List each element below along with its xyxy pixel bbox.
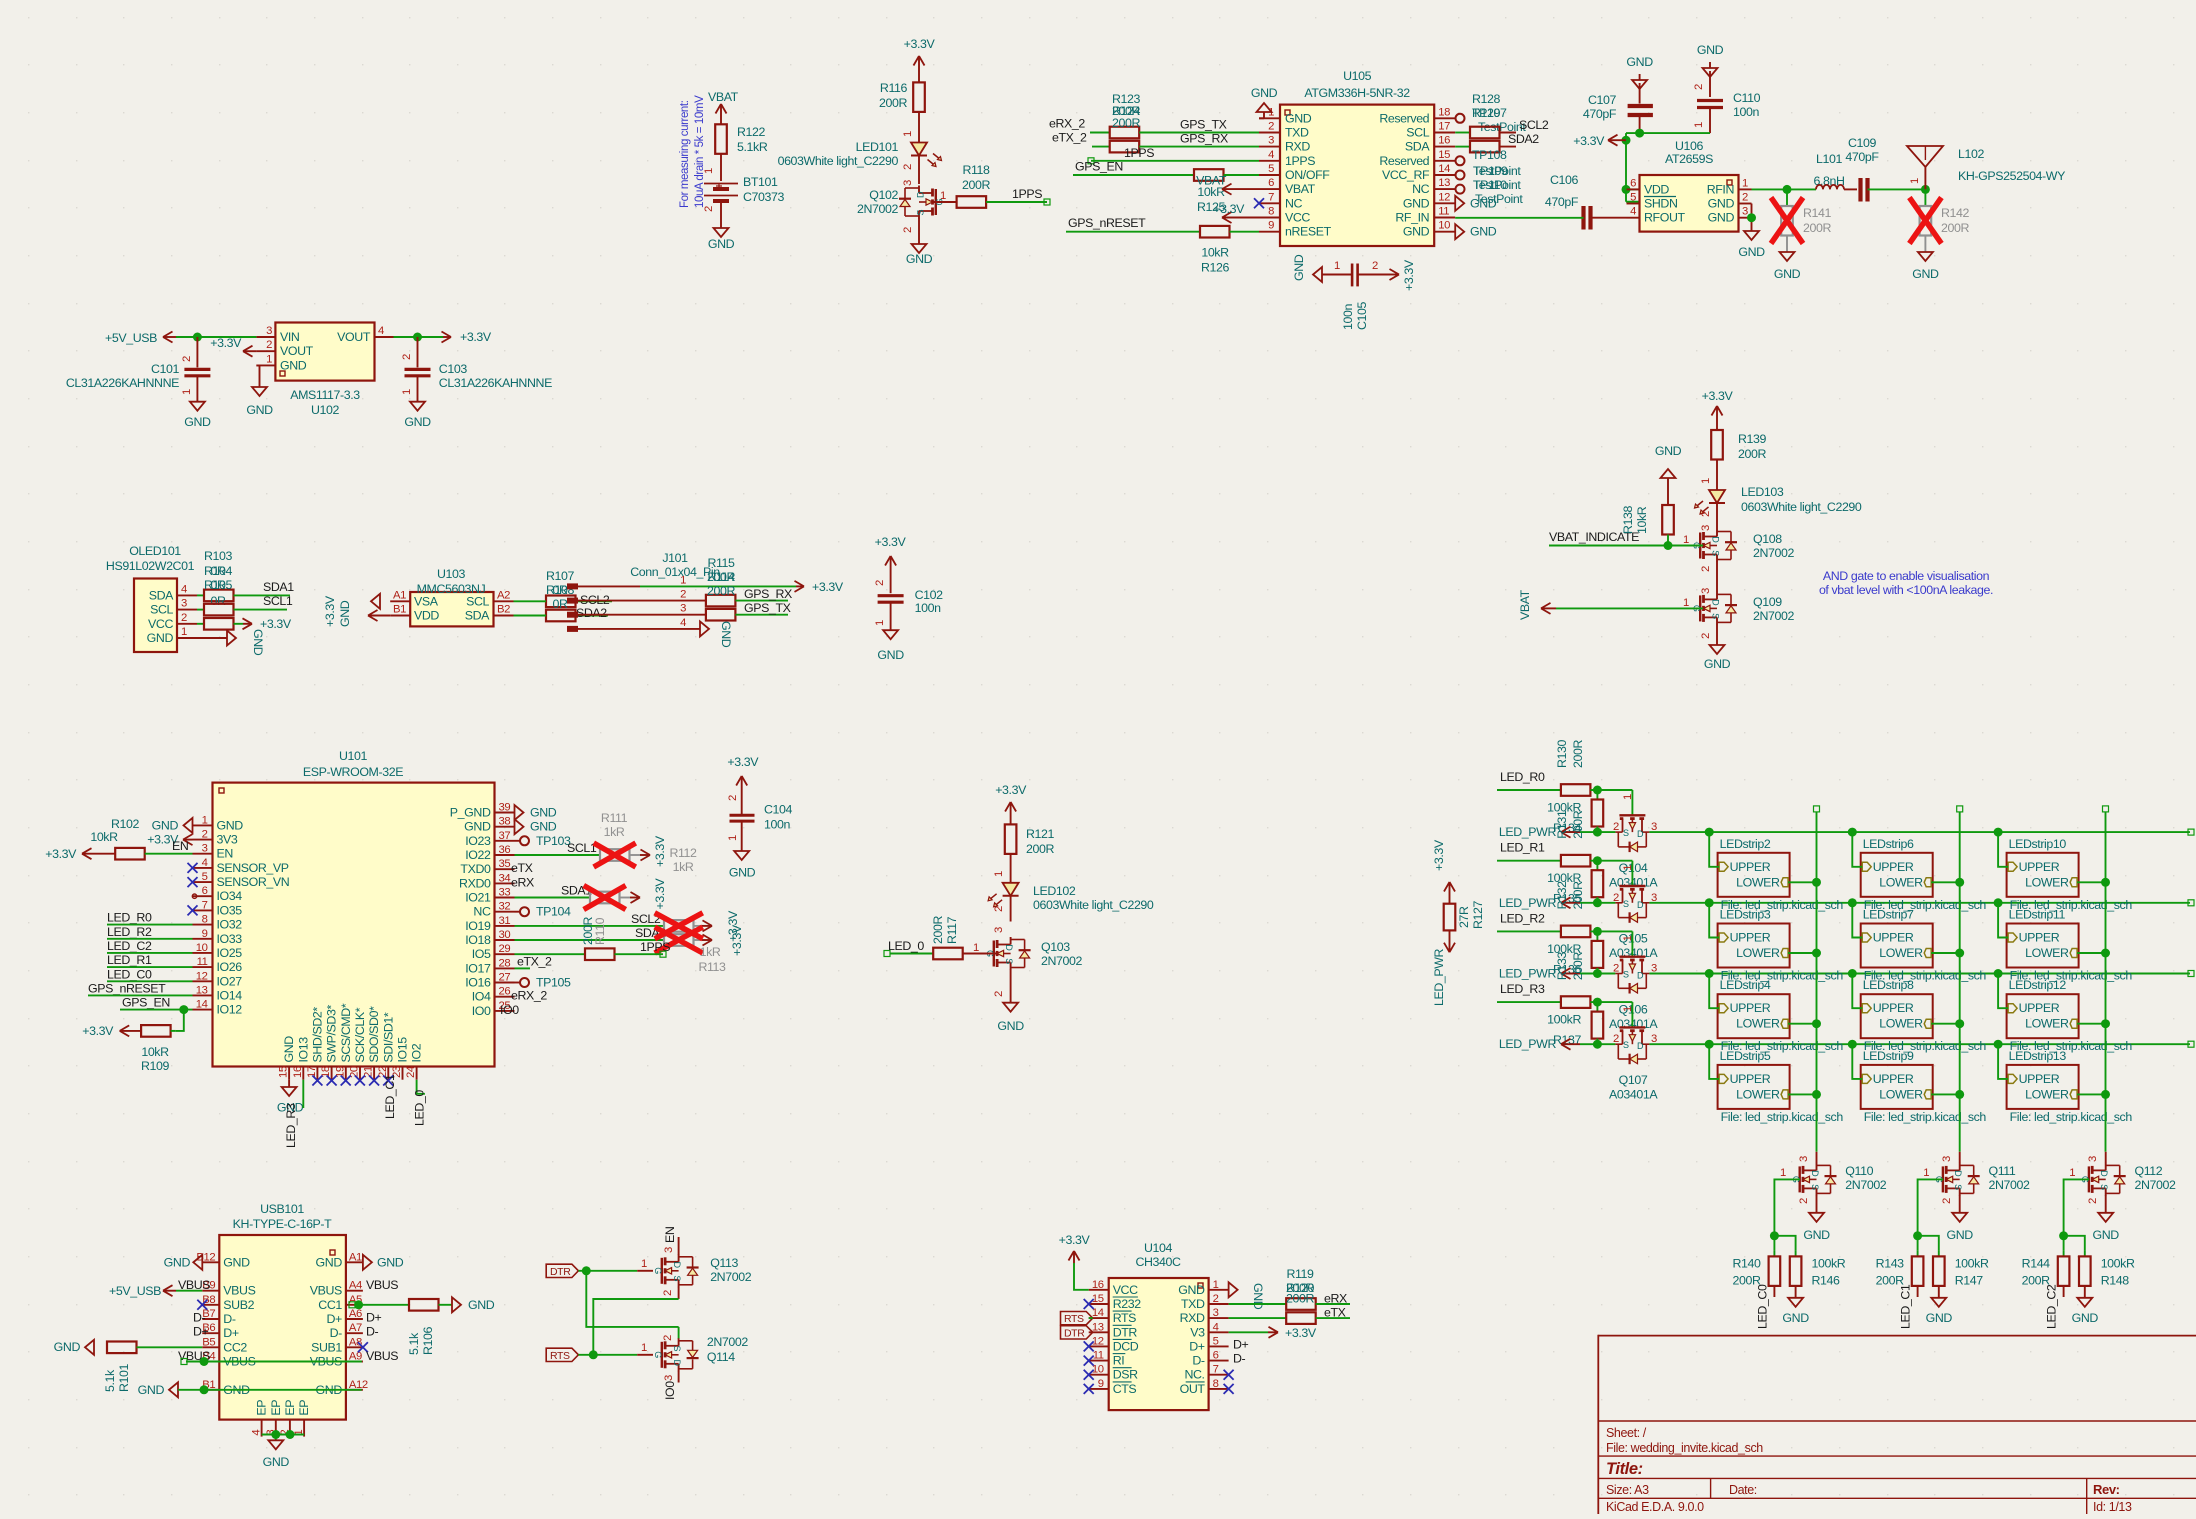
svg-text:CTS: CTS	[1113, 1382, 1137, 1396]
svg-text:Date:: Date:	[1729, 1483, 1757, 1497]
ground U106 pins 2-3	[1738, 204, 1765, 260]
wire LOWER LEDstrip7	[1931, 949, 1964, 958]
svg-text:TP105: TP105	[536, 976, 571, 990]
no-connect ESP pin21	[369, 1076, 379, 1086]
svg-text:100n: 100n	[1341, 304, 1355, 330]
net GPS_EN	[120, 996, 193, 1015]
svg-text:470pF: 470pF	[1545, 195, 1579, 209]
svg-text:GND: GND	[263, 1455, 290, 1469]
svg-text:LOWER: LOWER	[2025, 946, 2069, 960]
svg-text:GND: GND	[997, 1019, 1024, 1033]
svg-text:0R: 0R	[210, 578, 225, 592]
svg-text:Q111: Q111	[1989, 1164, 2016, 1178]
svg-text:0R: 0R	[210, 594, 225, 608]
svg-text:GND: GND	[1403, 196, 1430, 210]
svg-text:15: 15	[278, 1066, 290, 1078]
resistor R116	[879, 81, 925, 112]
svg-text:11: 11	[1093, 1350, 1104, 1362]
svg-text:+5V_USB: +5V_USB	[109, 1284, 161, 1298]
svg-text:13: 13	[196, 984, 208, 996]
svg-text:GND: GND	[251, 629, 265, 656]
svg-text:IO15: IO15	[396, 1037, 410, 1063]
wire UPPER LEDstrip5	[1709, 1044, 1719, 1079]
resistor R144	[2022, 1251, 2070, 1297]
svg-text:A1: A1	[393, 589, 406, 601]
svg-text:S: S	[672, 1276, 682, 1282]
svg-text:C109: C109	[1848, 136, 1877, 150]
svg-text:13: 13	[1092, 1321, 1104, 1333]
svg-text:200R: 200R	[962, 178, 990, 192]
resistor R141 (DNP)	[1771, 189, 1832, 252]
svg-text:S: S	[1623, 1040, 1629, 1050]
svg-text:D-: D-	[1233, 1352, 1246, 1366]
svg-text:LEDstrip9: LEDstrip9	[1863, 1049, 1914, 1063]
svg-text:R126: R126	[1201, 261, 1230, 275]
wire LOWER LEDstrip12	[2077, 1019, 2110, 1028]
svg-text:GND: GND	[1947, 1228, 1974, 1242]
ground at B1	[138, 1382, 362, 1397]
svg-text:SHD/SD2*: SHD/SD2*	[310, 1007, 324, 1063]
resistor R138	[1621, 505, 1674, 546]
svg-text:D: D	[1711, 536, 1721, 543]
wire Q111 source to GND	[1941, 1195, 1960, 1212]
svg-text:LEDstrip13: LEDstrip13	[2009, 1049, 2067, 1063]
svg-text:NC: NC	[1285, 196, 1303, 210]
wire Q112 gate	[2059, 1179, 2089, 1250]
svg-text:Q109: Q109	[1753, 595, 1782, 609]
svg-text:3V3: 3V3	[217, 833, 238, 847]
inductor L101	[1813, 152, 1844, 189]
svg-text:+3.3V: +3.3V	[653, 835, 667, 867]
svg-text:6: 6	[202, 885, 208, 897]
svg-text:27: 27	[499, 972, 511, 984]
svg-text:LOWER: LOWER	[1879, 1087, 1923, 1101]
net EN at Q113 drain	[663, 1227, 679, 1255]
ground above R138	[1655, 444, 1682, 505]
resistor R119 on TXD	[1229, 1267, 1350, 1310]
svg-text:D+: D+	[1189, 1339, 1205, 1353]
svg-text:+5V_USB: +5V_USB	[105, 331, 157, 345]
transistor Q108	[1683, 529, 1795, 562]
svg-text:Id: 1/13: Id: 1/13	[2093, 1500, 2132, 1514]
svg-text:1: 1	[973, 942, 979, 954]
svg-text:4: 4	[251, 1430, 263, 1436]
power +3.3V at R109	[82, 1024, 141, 1038]
svg-text:D: D	[1953, 1170, 1963, 1177]
U101 pins	[193, 802, 515, 1080]
svg-text:2N7002: 2N7002	[1753, 546, 1795, 560]
wire Q103 source to GND	[993, 970, 1011, 1003]
svg-text:2: 2	[1372, 260, 1378, 272]
transistor Q104 A03401A	[1609, 815, 1658, 889]
power +3.3V above R139	[1702, 389, 1734, 430]
svg-text:UPPER: UPPER	[1873, 860, 1914, 874]
svg-text:D+: D+	[193, 1325, 209, 1339]
svg-text:1: 1	[1622, 1006, 1634, 1012]
svg-text:U101: U101	[339, 749, 368, 763]
J101 pins	[567, 574, 686, 632]
svg-text:RTS: RTS	[550, 1350, 570, 1362]
wire LED_PWR row 2	[1580, 973, 1615, 975]
magnetometer U103 MMC5603NJ	[410, 567, 493, 626]
svg-text:D: D	[672, 1262, 682, 1269]
svg-text:UPPER: UPPER	[2019, 1072, 2060, 1086]
ground at U105 pin10	[1455, 224, 1497, 239]
svg-text:1: 1	[1622, 794, 1634, 800]
ground under Q112	[2093, 1213, 2120, 1242]
wire R121 to LED102	[993, 854, 1011, 883]
svg-text:GPS_EN: GPS_EN	[122, 996, 170, 1010]
svg-text:R232: R232	[1113, 1297, 1142, 1311]
transistor Q107 A03401A	[1609, 1027, 1658, 1101]
svg-text:R127: R127	[1471, 900, 1485, 929]
capacitor C107	[1583, 93, 1653, 133]
ground at ESP pin15	[277, 1080, 304, 1115]
svg-text:R109: R109	[141, 1059, 170, 1073]
resistor R131	[1555, 810, 1590, 866]
svg-text:12: 12	[1092, 1335, 1104, 1347]
svg-text:1: 1	[1622, 935, 1634, 941]
svg-text:13: 13	[1438, 177, 1450, 189]
svg-text:File: wedding_invite.kicad_sch: File: wedding_invite.kicad_sch	[1606, 1441, 1763, 1455]
wire UPPER LEDstrip8	[1852, 974, 1862, 1009]
svg-text:GND: GND	[906, 252, 933, 266]
svg-text:0603White light_C2290: 0603White light_C2290	[778, 154, 899, 168]
svg-text:Reserved: Reserved	[1379, 154, 1429, 168]
wire VOUT to +3.3V	[394, 333, 444, 342]
svg-text:C102: C102	[915, 588, 944, 602]
resistor R142 (DNP)	[1909, 189, 1969, 252]
net LED_R3 at pin16	[284, 1080, 303, 1148]
svg-text:CC2: CC2	[223, 1340, 247, 1354]
svg-text:1: 1	[641, 1258, 647, 1270]
svg-text:LOWER: LOWER	[1879, 946, 1923, 960]
resistor R124 on eTX_2	[1052, 131, 1259, 153]
power +3.3V above R127	[1432, 839, 1455, 904]
svg-text:IO5: IO5	[472, 947, 491, 961]
svg-text:U106: U106	[1675, 139, 1704, 153]
resistor R121	[1005, 824, 1055, 856]
svg-text:2: 2	[902, 164, 914, 170]
svg-text:32: 32	[499, 901, 511, 913]
svg-text:LEDstrip4: LEDstrip4	[1720, 978, 1771, 992]
svg-text:VCC: VCC	[148, 617, 173, 631]
no-connect U104 pins	[1084, 1299, 1094, 1394]
hierarchical label RTS at U104	[1061, 1312, 1093, 1326]
svg-text:ATGM336H-5NR-32: ATGM336H-5NR-32	[1304, 86, 1410, 100]
wire J101 pin1 to +3.3V	[640, 580, 844, 594]
svg-text:100kR: 100kR	[1547, 1013, 1581, 1027]
wire LED_PWR row 3	[1580, 1043, 1615, 1045]
power LED_PWR row 3	[1499, 1037, 1580, 1051]
net LED_R0	[107, 911, 193, 925]
svg-text:GND: GND	[1251, 1283, 1265, 1310]
power +3.3V at VOUT pin2	[210, 336, 256, 357]
capacitor C105	[1292, 254, 1416, 330]
svg-text:GND: GND	[280, 358, 307, 372]
svg-text:EP: EP	[269, 1400, 283, 1416]
svg-text:GND: GND	[468, 1298, 495, 1312]
svg-text:2: 2	[1613, 821, 1619, 833]
note measuring current (blue)	[679, 95, 706, 208]
svg-text:2: 2	[662, 1335, 674, 1341]
svg-text:2: 2	[1742, 192, 1748, 204]
title block	[1598, 1335, 2196, 1514]
wire LOWER LEDstrip2	[1788, 878, 1821, 887]
resistor R122	[715, 124, 768, 154]
svg-text:IO2: IO2	[410, 1043, 424, 1062]
svg-text:HS91L02W2C01: HS91L02W2C01	[106, 559, 195, 573]
svg-text:+3.3V: +3.3V	[730, 924, 744, 956]
svg-text:LOWER: LOWER	[1736, 1087, 1780, 1101]
svg-text:LED_PWR: LED_PWR	[1499, 1037, 1557, 1051]
svg-text:A8: A8	[349, 1336, 362, 1348]
svg-text:S: S	[1623, 828, 1629, 838]
net LED_C1 at pin23	[383, 1074, 397, 1119]
svg-text:GND: GND	[1803, 1228, 1830, 1242]
svg-text:D-: D-	[330, 1326, 343, 1340]
svg-text:1: 1	[902, 131, 914, 137]
svg-text:SDA1: SDA1	[263, 580, 294, 594]
svg-text:OUT: OUT	[1180, 1382, 1206, 1396]
svg-text:GND: GND	[1708, 211, 1735, 225]
svg-text:2: 2	[1613, 892, 1619, 904]
svg-text:G: G	[653, 1351, 663, 1358]
wire EP pins	[262, 1430, 305, 1440]
svg-text:U103: U103	[437, 567, 466, 581]
svg-text:TXD: TXD	[1181, 1297, 1205, 1311]
svg-text:SCL: SCL	[1406, 126, 1429, 140]
svg-text:2: 2	[1798, 1198, 1810, 1204]
svg-text:R131: R131	[1555, 810, 1569, 839]
svg-text:SCL: SCL	[466, 594, 489, 608]
svg-text:VBAT: VBAT	[708, 90, 739, 104]
svg-text:C110: C110	[1733, 91, 1761, 105]
ground at U105 pin1	[1251, 86, 1278, 118]
resistor R137	[1547, 1002, 1603, 1049]
resistor R117	[931, 916, 997, 960]
wire LED_PWR row 0	[1580, 831, 1615, 833]
power +3.3V at R102	[45, 847, 115, 861]
svg-text:LOWER: LOWER	[2025, 875, 2069, 889]
svg-text:TP107: TP107	[1472, 106, 1507, 120]
svg-text:VCC: VCC	[1285, 211, 1310, 225]
svg-text:of vbat level with <100nA leak: of vbat level with <100nA leakage.	[1819, 583, 1993, 597]
svg-text:GND: GND	[1626, 55, 1653, 69]
sheet LEDstrip6	[1861, 837, 1987, 912]
power +3.3V at U103 VDD	[323, 595, 390, 627]
power +3.3V at ESP pin2	[147, 833, 192, 847]
svg-text:ON/OFF: ON/OFF	[1285, 168, 1330, 182]
svg-text:AMS1117-3.3: AMS1117-3.3	[290, 388, 360, 402]
svg-text:IO14: IO14	[217, 988, 243, 1002]
svg-text:R114: R114	[707, 570, 735, 584]
svg-text:1kR: 1kR	[604, 825, 625, 839]
wire cross-couple RTS to Q113 source	[593, 1287, 678, 1355]
svg-text:2: 2	[874, 580, 886, 586]
svg-text:16: 16	[292, 1066, 304, 1078]
ground under Q103	[997, 1003, 1024, 1033]
svg-text:USB101: USB101	[260, 1202, 304, 1216]
svg-text:R144: R144	[2022, 1257, 2051, 1271]
resistor R127	[1444, 900, 1485, 930]
svg-text:GPS_nRESET: GPS_nRESET	[1068, 216, 1146, 230]
resistor R147	[1933, 1251, 1989, 1298]
svg-text:UPPER: UPPER	[1873, 1001, 1914, 1015]
wire LOWER LEDstrip8	[1931, 1019, 1964, 1028]
resistor R140	[1732, 1251, 1780, 1297]
svg-text:LOWER: LOWER	[1879, 875, 1923, 889]
wire UPPER LEDstrip12	[1998, 974, 2008, 1009]
svg-text:5.1k: 5.1k	[103, 1369, 117, 1392]
resistor R114 on GPS_TX	[640, 601, 791, 621]
svg-text:1: 1	[266, 353, 272, 365]
svg-text:TestPoint: TestPoint	[1473, 164, 1521, 178]
hierarchical label RTS	[546, 1348, 578, 1362]
wire Q110 source to GND	[1798, 1195, 1817, 1212]
svg-text:KiCad E.D.A. 9.0.0: KiCad E.D.A. 9.0.0	[1606, 1500, 1704, 1514]
svg-text:+3.3V: +3.3V	[323, 595, 337, 627]
svg-text:C106: C106	[1550, 173, 1579, 187]
svg-text:S: S	[1711, 550, 1721, 556]
ground at R106	[452, 1297, 495, 1312]
svg-text:RF_IN: RF_IN	[1395, 211, 1429, 225]
wire gate node row 3	[1590, 998, 1634, 1028]
net GPS_nRESET	[88, 981, 193, 995]
svg-text:LOWER: LOWER	[1879, 1017, 1923, 1031]
LED LED102	[988, 883, 1154, 912]
no-connect ESP pin17	[312, 1076, 322, 1086]
svg-text:1: 1	[1683, 597, 1689, 609]
svg-text:GPS_EN: GPS_EN	[1075, 160, 1123, 174]
svg-text:IO0: IO0	[500, 1003, 519, 1017]
svg-text:LED_0: LED_0	[888, 939, 924, 953]
resistor R130	[1555, 739, 1590, 795]
svg-text:+3.3V: +3.3V	[1059, 1233, 1091, 1247]
capacitor C109	[1844, 136, 1930, 202]
svg-text:2N7002: 2N7002	[857, 202, 899, 216]
svg-text:D: D	[1004, 944, 1014, 951]
svg-text:S: S	[1810, 1184, 1820, 1190]
svg-text:2N7002: 2N7002	[1753, 609, 1795, 623]
svg-text:Q103: Q103	[1041, 940, 1070, 954]
svg-text:D+: D+	[366, 1311, 382, 1325]
svg-text:1: 1	[401, 389, 413, 395]
svg-text:1: 1	[1693, 122, 1705, 128]
svg-text:2: 2	[1700, 511, 1712, 517]
svg-text:LED_C2: LED_C2	[2045, 1284, 2059, 1329]
ground at B12	[164, 1255, 203, 1270]
svg-text:GND: GND	[147, 631, 174, 645]
svg-text:Sheet: /: Sheet: /	[1606, 1426, 1647, 1440]
svg-text:GND: GND	[338, 600, 352, 627]
svg-text:0603White light_C2290: 0603White light_C2290	[1741, 500, 1862, 514]
wire drain row 2	[1649, 969, 2194, 978]
svg-text:LEDstrip2: LEDstrip2	[1720, 837, 1771, 851]
svg-text:17: 17	[1438, 121, 1450, 133]
svg-text:R112: R112	[669, 846, 697, 860]
ground under R146	[1782, 1298, 1809, 1325]
svg-text:DCD: DCD	[1113, 1339, 1139, 1353]
svg-text:C70373: C70373	[743, 190, 785, 204]
svg-text:LED_R1: LED_R1	[107, 953, 152, 967]
svg-text:S: S	[1711, 613, 1721, 619]
svg-text:nRESET: nRESET	[1285, 225, 1332, 239]
svg-text:1: 1	[993, 871, 1005, 877]
svg-text:IO26: IO26	[217, 960, 243, 974]
svg-text:Reserved: Reserved	[1379, 111, 1429, 125]
svg-text:GND: GND	[223, 1255, 250, 1269]
no-connect U105 pin7	[1254, 198, 1264, 208]
wire Q109 source to GND	[1700, 625, 1717, 646]
svg-text:200R: 200R	[1941, 221, 1969, 235]
svg-text:R110: R110	[593, 917, 607, 945]
RF LNA U106 AT2659S	[1640, 139, 1739, 232]
svg-text:100n: 100n	[764, 818, 790, 832]
svg-text:GPS_RX: GPS_RX	[1180, 132, 1228, 146]
resistor R104 on SCL	[197, 594, 293, 615]
svg-text:DTR: DTR	[550, 1266, 571, 1278]
svg-text:LEDstrip12: LEDstrip12	[2009, 978, 2067, 992]
transistor Q105 A03401A	[1609, 886, 1658, 960]
svg-text:200R: 200R	[879, 96, 907, 110]
svg-text:Rev:: Rev:	[2093, 1482, 2120, 1497]
svg-text:2N7002: 2N7002	[1041, 954, 1083, 968]
svg-text:A6: A6	[349, 1308, 362, 1320]
LED LED103	[1695, 485, 1862, 514]
ground above C107	[1626, 55, 1653, 104]
sheet LEDstrip11	[2007, 908, 2133, 983]
svg-text:GND: GND	[1403, 225, 1430, 239]
power +3.3V at OLED VCC	[243, 617, 292, 631]
svg-text:5: 5	[1268, 163, 1274, 175]
svg-text:eRX: eRX	[511, 875, 534, 889]
svg-text:2N7002: 2N7002	[1845, 1178, 1887, 1192]
svg-text:D: D	[2099, 1170, 2109, 1177]
svg-text:SENSOR_VN: SENSOR_VN	[217, 875, 290, 889]
ground at U104 GND	[1229, 1282, 1265, 1309]
wire LOWER LEDstrip11	[2077, 949, 2110, 958]
svg-text:C107: C107	[1588, 93, 1617, 107]
svg-text:VCC_RF: VCC_RF	[1382, 168, 1430, 182]
power LED_PWR row 0	[1499, 825, 1580, 839]
svg-text:SCL1: SCL1	[567, 841, 597, 855]
svg-text:5: 5	[1630, 192, 1636, 204]
svg-text:16: 16	[1092, 1279, 1104, 1291]
svg-text:3: 3	[902, 180, 914, 186]
svg-text:GND: GND	[2072, 1311, 2099, 1325]
wire GPS_EN branch to R109	[176, 1010, 184, 1031]
wire gate node row 0	[1590, 786, 1634, 816]
svg-text:5: 5	[1213, 1335, 1219, 1347]
svg-text:LED102: LED102	[1033, 884, 1076, 898]
net LED_R0	[1497, 770, 1561, 790]
svg-text:3: 3	[1213, 1307, 1219, 1319]
sheet LEDstrip10	[2007, 837, 2133, 912]
wire LOWER LEDstrip9	[1931, 1090, 1964, 1099]
resistor R125 on GPS_EN	[1073, 160, 1259, 215]
wire RFIN node	[1752, 185, 1817, 194]
svg-text:D: D	[672, 1360, 682, 1367]
svg-text:UPPER: UPPER	[1873, 931, 1914, 945]
svg-text:R140: R140	[1732, 1257, 1761, 1271]
svg-text:R115: R115	[707, 556, 735, 570]
svg-text:VBUS: VBUS	[366, 1278, 398, 1292]
svg-text:SUB2: SUB2	[223, 1298, 254, 1312]
resistor R106 on CC1	[349, 1299, 452, 1355]
svg-text:VBAT: VBAT	[1518, 589, 1532, 620]
ground under Q110	[1803, 1213, 1830, 1242]
